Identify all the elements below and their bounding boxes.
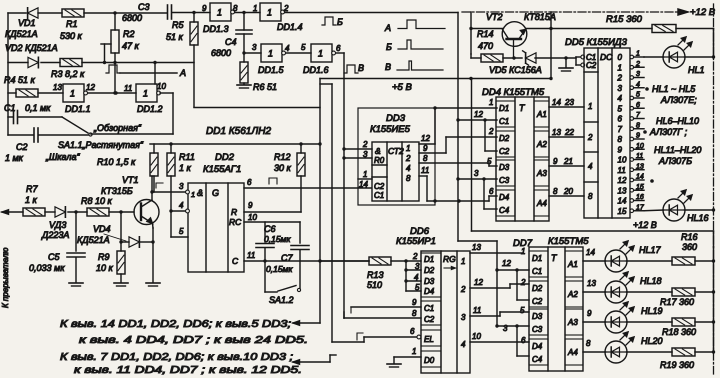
wire DD4 A2 out	[549, 128, 584, 137]
svg-text:13: 13	[472, 243, 481, 252]
svg-text:10: 10	[636, 143, 644, 150]
svg-text:D4: D4	[499, 193, 510, 202]
capacitor C6	[256, 222, 291, 292]
svg-text:T: T	[551, 253, 558, 263]
svg-text:DD1 К561ЛН2: DD1 К561ЛН2	[206, 126, 271, 137]
svg-text:DD1.4: DD1.4	[277, 22, 303, 32]
label DD1 type	[206, 126, 271, 137]
wire DD1.1 out to DD1.2 in	[88, 91, 136, 94]
svg-text:VД3: VД3	[49, 220, 66, 230]
svg-text:К выв. 14 DD1, DD2, DD6; к в: К выв. 14 DD1, DD2, DD6; к выв.5 DD3;	[60, 319, 291, 330]
wire DD5 strobe stubs	[576, 55, 585, 67]
svg-text:D0: D0	[424, 356, 435, 365]
svg-text:DD1.3: DD1.3	[203, 24, 229, 34]
svg-text:R: R	[231, 207, 237, 217]
led HL20	[605, 332, 672, 363]
svg-text:14: 14	[586, 248, 595, 257]
inverter DD1.3	[203, 3, 238, 34]
svg-text:1: 1	[521, 247, 525, 256]
svg-text:Д223А: Д223А	[41, 230, 69, 240]
svg-text:C1: C1	[4, 103, 16, 113]
transistor VT1	[101, 175, 159, 225]
wire VD2/R3 line	[8, 53, 194, 95]
resistor R10	[97, 144, 158, 192]
wire VD3 to R8	[68, 210, 87, 213]
svg-text:8: 8	[406, 174, 411, 183]
wire gnd pin feed arrow	[293, 355, 336, 364]
svg-text:11: 11	[421, 166, 429, 175]
resistor R12	[274, 144, 305, 212]
svg-text:6: 6	[336, 44, 341, 53]
svg-text:SA1.1„Растянутая“: SA1.1„Растянутая“	[58, 140, 144, 150]
svg-text:4: 4	[588, 162, 593, 171]
label DD6 type	[396, 226, 436, 247]
svg-text:1: 1	[489, 98, 493, 107]
svg-text:Б: Б	[386, 42, 392, 52]
svg-text:К155ТМ5: К155ТМ5	[548, 236, 589, 247]
svg-text:A2: A2	[567, 290, 578, 299]
svg-text:C: C	[232, 256, 239, 266]
wire R7 to VD3	[45, 211, 55, 213]
diode VD3	[41, 207, 69, 240]
svg-text:C1: C1	[374, 191, 384, 200]
waveform A	[384, 20, 445, 33]
svg-text:1: 1	[363, 170, 367, 179]
waveform V	[385, 61, 443, 72]
svg-text:2: 2	[520, 278, 526, 287]
svg-text:3: 3	[618, 84, 623, 93]
label K preryvatelyu	[1, 248, 10, 308]
inverter DD1.1	[53, 83, 95, 114]
svg-text:2: 2	[617, 74, 623, 83]
svg-text:+12 В: +12 В	[690, 7, 716, 18]
svg-text:11: 11	[473, 306, 481, 315]
svg-text:1: 1	[217, 8, 222, 18]
svg-text:5: 5	[415, 283, 420, 292]
svg-text:12: 12	[502, 259, 511, 268]
svg-text:3: 3	[252, 43, 257, 52]
svg-text:C4: C4	[225, 37, 237, 47]
ic DD5	[584, 48, 630, 218]
resistor R17	[660, 288, 715, 307]
svg-text:13: 13	[618, 186, 627, 195]
wire DD6 out2	[470, 278, 529, 288]
svg-text:R10 1,5 к: R10 1,5 к	[97, 157, 136, 167]
wire +5 distribution left	[194, 79, 320, 324]
svg-text:C1: C1	[424, 304, 434, 313]
svg-text:R16: R16	[681, 232, 698, 242]
svg-text:А: А	[384, 23, 391, 33]
wire right border rail (dash-dot)	[713, 4, 715, 374]
svg-text:15: 15	[636, 184, 644, 191]
capacitor C1	[4, 103, 62, 124]
svg-text:КД521А: КД521А	[5, 29, 38, 39]
svg-text:R12: R12	[274, 152, 291, 162]
svg-text:1: 1	[618, 63, 622, 72]
svg-text:1: 1	[268, 49, 273, 59]
svg-text:D2: D2	[424, 266, 435, 275]
ic DD2	[188, 183, 244, 272]
svg-text:3: 3	[363, 150, 368, 159]
wire R8 to base	[109, 210, 134, 213]
svg-text:4: 4	[618, 94, 623, 103]
ic DD6	[421, 251, 470, 373]
svg-text:C2: C2	[16, 142, 28, 152]
svg-text:C4: C4	[499, 206, 510, 215]
svg-text:1 к: 1 к	[179, 163, 192, 173]
svg-text:1: 1	[253, 4, 257, 13]
svg-text:R4 51 к: R4 51 к	[4, 75, 36, 85]
svg-text:HL11–HL20: HL11–HL20	[654, 145, 701, 155]
wire +5 to D inputs	[472, 79, 714, 248]
svg-text:R13: R13	[367, 270, 384, 280]
resistor R19	[660, 348, 715, 370]
svg-text:R17 360: R17 360	[660, 297, 694, 307]
wire R4 line	[8, 92, 63, 94]
label power note line4	[74, 365, 302, 376]
wire DD7 A2 out	[583, 279, 606, 292]
svg-text:D3: D3	[424, 277, 435, 286]
svg-text:А: А	[179, 68, 186, 78]
svg-text:Б: Б	[337, 17, 343, 27]
svg-text:R18 360: R18 360	[662, 327, 696, 337]
svg-text:6: 6	[521, 336, 526, 345]
svg-text:23: 23	[564, 98, 574, 107]
wire DD6 out3	[470, 306, 529, 316]
resistor R3	[51, 59, 85, 80]
wire R2 side stub	[101, 44, 111, 64]
wire V signal	[336, 53, 344, 318]
svg-text:0,15мк: 0,15мк	[264, 234, 291, 244]
wire R rail (DD2 pullups)	[150, 142, 322, 145]
svg-text:6: 6	[618, 115, 623, 124]
svg-text:D1: D1	[499, 104, 509, 113]
wire DD7 A4 out	[583, 339, 606, 352]
svg-text:510: 510	[367, 280, 382, 290]
wire VT1 emitter	[146, 224, 160, 287]
svg-text:К прерывателю: К прерывателю	[1, 248, 10, 308]
svg-text:9: 9	[618, 145, 623, 154]
svg-text:VT1: VT1	[122, 175, 139, 185]
svg-text:VD1: VD1	[18, 18, 36, 28]
svg-text:„Обзорная“: „Обзорная“	[93, 123, 142, 133]
svg-text:D2: D2	[532, 284, 543, 293]
svg-text:2: 2	[283, 4, 289, 13]
svg-text:HL1 ~ HL5: HL1 ~ HL5	[652, 84, 696, 94]
node V pulse marker	[344, 63, 364, 73]
inverter DD1.5	[258, 44, 290, 75]
svg-text:2: 2	[362, 140, 368, 149]
svg-text:1: 1	[318, 49, 323, 59]
svg-text:C4: C4	[532, 355, 543, 364]
resistor R2	[111, 13, 140, 53]
svg-text:10: 10	[472, 332, 481, 341]
wire DD2 pin11 C	[244, 251, 369, 263]
svg-text:EL: EL	[424, 335, 434, 344]
wire R5 node to DD1.3	[194, 4, 210, 13]
resistor R9	[96, 242, 128, 286]
svg-text:RG: RG	[443, 254, 456, 264]
svg-text:8: 8	[233, 4, 238, 13]
wire DD6 C1	[351, 298, 421, 313]
svg-text:КД521А: КД521А	[77, 235, 110, 245]
svg-text:C2: C2	[424, 315, 435, 324]
svg-text:A3: A3	[567, 318, 578, 327]
ic DD3	[372, 142, 419, 201]
svg-text:D3: D3	[499, 163, 510, 172]
resistor R1	[60, 9, 84, 41]
wire DD3 out8	[419, 154, 497, 166]
svg-text:0,1 мк: 0,1 мк	[25, 103, 51, 113]
svg-text:VD2 КД521А: VD2 КД521А	[5, 43, 58, 53]
svg-text:R6 51: R6 51	[253, 82, 277, 92]
svg-text:К выв. 7 DD1, DD2, DD6; к: К выв. 7 DD1, DD2, DD6; к выв.10 DD3 ;	[60, 352, 293, 363]
svg-text:D3: D3	[532, 312, 543, 321]
svg-text:2: 2	[405, 154, 411, 163]
wire DD6 EL	[320, 84, 421, 342]
led HL18	[605, 272, 672, 303]
label DD4 type	[482, 87, 545, 98]
svg-text:&: &	[197, 188, 203, 198]
svg-text:9: 9	[248, 201, 253, 210]
label power note line1	[60, 319, 291, 330]
diode VD2	[5, 43, 58, 68]
svg-text:10 к: 10 к	[96, 263, 114, 273]
svg-text:9: 9	[553, 157, 558, 166]
inverter DD1.6	[303, 44, 341, 75]
capacitor C7	[266, 222, 309, 290]
svg-text:D1: D1	[532, 254, 542, 263]
resistor R15	[551, 14, 714, 57]
wire VT2 emitter line	[527, 28, 552, 30]
svg-text:4: 4	[406, 164, 411, 173]
svg-text:A1: A1	[536, 110, 547, 119]
svg-text:к выв. 11 DD4, DD7 ; к вы: к выв. 11 DD4, DD7 ; к выв. 12 DD5.	[74, 365, 302, 376]
wire DD7 C3C4 tie	[497, 324, 529, 356]
svg-text:9: 9	[636, 133, 640, 140]
diode VD1	[5, 8, 38, 39]
svg-text:C2: C2	[586, 61, 597, 70]
led HL17	[605, 241, 672, 272]
wire C4 to DD1.5	[244, 43, 261, 53]
svg-text:DD1.6: DD1.6	[303, 65, 329, 75]
svg-text:+5 В: +5 В	[392, 82, 412, 93]
wire DD3 out12	[419, 108, 497, 144]
svg-text:HL1: HL1	[688, 65, 705, 75]
svg-text:С3: С3	[138, 2, 150, 12]
capacitor C4	[211, 13, 252, 59]
svg-text:АЛ307Б: АЛ307Б	[658, 156, 692, 166]
svg-text:20: 20	[563, 187, 573, 196]
svg-text:13: 13	[552, 128, 561, 137]
svg-text:DC: DC	[600, 52, 613, 62]
svg-text:2: 2	[460, 285, 466, 294]
wire VD5 line	[503, 56, 576, 59]
wire DD3 pin1	[358, 170, 372, 179]
svg-text:14: 14	[552, 98, 561, 107]
svg-text:4: 4	[636, 81, 640, 88]
led HL1	[644, 37, 715, 75]
svg-text:C3: C3	[532, 325, 543, 334]
svg-text:10: 10	[157, 82, 166, 91]
svg-text:D4: D4	[424, 287, 435, 296]
svg-text:A1: A1	[567, 260, 578, 269]
wire left rail	[7, 13, 9, 135]
svg-text:R9: R9	[98, 252, 110, 262]
svg-text:0,15мк: 0,15мк	[266, 264, 293, 274]
svg-text:16: 16	[636, 194, 644, 201]
resistor R11	[167, 144, 195, 211]
capacitor C5	[29, 212, 85, 286]
svg-text:2: 2	[587, 133, 593, 142]
svg-text:АЛ307Е;: АЛ307Е;	[660, 95, 697, 105]
wire VT1 collector	[151, 176, 153, 200]
svg-text:D1: D1	[424, 255, 434, 264]
svg-text:8: 8	[586, 339, 591, 348]
wire DD6 out1	[470, 243, 522, 253]
svg-text:530 к: 530 к	[60, 31, 83, 41]
wire DD7 A3 out	[583, 309, 606, 322]
svg-text:C2: C2	[532, 297, 543, 306]
svg-text:R1: R1	[66, 19, 78, 29]
svg-text:5: 5	[301, 43, 306, 52]
svg-text:1: 1	[406, 144, 410, 153]
svg-text:8: 8	[636, 122, 640, 129]
svg-text:R15 360: R15 360	[606, 14, 643, 25]
svg-text:1: 1	[412, 347, 416, 356]
wire DD2 pin10 RC	[244, 213, 300, 222]
svg-text:47 к: 47 к	[122, 41, 140, 51]
zener VD5	[489, 51, 542, 75]
svg-text:8: 8	[423, 154, 428, 163]
svg-text:1: 1	[588, 102, 592, 111]
wire DD4 A4 out	[549, 187, 584, 196]
svg-text:HL17: HL17	[639, 245, 662, 255]
svg-text:11: 11	[636, 153, 643, 160]
svg-text:4: 4	[179, 201, 184, 210]
svg-text:R14: R14	[477, 29, 494, 39]
svg-text:4: 4	[285, 44, 290, 53]
label DD5 type	[565, 37, 628, 48]
label +12V mid	[633, 220, 657, 230]
diode VD4	[77, 212, 153, 247]
wire DD2 pin3 pulse	[156, 183, 163, 188]
svg-text:+12 В: +12 В	[633, 220, 657, 230]
svg-text:СТ2: СТ2	[388, 146, 404, 156]
svg-text:R11: R11	[179, 152, 195, 162]
svg-text:В: В	[358, 63, 364, 73]
svg-text:14: 14	[636, 174, 644, 181]
svg-text:HL18: HL18	[640, 276, 662, 286]
wire DD1.2 out route	[91, 93, 173, 134]
svg-text:4: 4	[414, 273, 419, 282]
svg-text:К155АГ1: К155АГ1	[203, 164, 241, 175]
svg-text:АЛ307Г ;: АЛ307Г ;	[649, 127, 688, 137]
wire DD6 out4	[470, 332, 529, 342]
resistor R7	[23, 184, 45, 216]
wire DD6 D0	[387, 347, 421, 367]
svg-text:HL19: HL19	[641, 306, 663, 316]
ic DD7	[529, 247, 583, 371]
svg-text:13: 13	[636, 163, 644, 170]
wire B signal top	[285, 12, 458, 14]
wire +12V top rail (dash-dot)	[462, 7, 716, 18]
resistor R16	[672, 232, 715, 265]
svg-text:DD3: DD3	[386, 113, 406, 124]
led HL19	[605, 302, 672, 333]
svg-text:D2: D2	[499, 134, 510, 143]
svg-text:1: 1	[143, 89, 148, 99]
svg-text:3: 3	[461, 313, 466, 322]
svg-text:14: 14	[618, 197, 627, 206]
switch SA1.1	[45, 117, 144, 162]
svg-text:9: 9	[587, 309, 592, 318]
svg-text:10: 10	[618, 156, 627, 165]
wire DD7 A1 out	[583, 248, 606, 261]
svg-text:8: 8	[618, 135, 623, 144]
svg-text:5: 5	[636, 92, 640, 99]
svg-text:2: 2	[412, 252, 418, 261]
svg-text:30 к: 30 к	[274, 163, 292, 173]
svg-text:1 к: 1 к	[25, 195, 38, 205]
resistor R8	[81, 196, 113, 216]
svg-text:C5: C5	[48, 252, 60, 262]
svg-text:DD1.2: DD1.2	[137, 104, 163, 114]
svg-text:3: 3	[503, 324, 508, 333]
wire input arrow	[2, 210, 23, 214]
wire DD6 D inputs tie	[404, 252, 421, 292]
svg-text:R3 8,2 к: R3 8,2 к	[51, 69, 85, 79]
svg-text:6: 6	[247, 178, 252, 187]
svg-text:5: 5	[618, 104, 623, 113]
svg-text:6: 6	[410, 327, 415, 336]
resistor R6	[237, 53, 277, 92]
ic DD4	[496, 97, 549, 221]
label power note line3	[60, 352, 293, 363]
svg-text:A2: A2	[536, 140, 547, 149]
svg-text:КТ315Б: КТ315Б	[101, 186, 133, 196]
node A pulse marker	[106, 65, 186, 78]
svg-text:R2: R2	[123, 29, 135, 39]
wire B clock vertical	[456, 13, 459, 242]
svg-text:12: 12	[474, 110, 483, 119]
svg-text:0: 0	[618, 53, 623, 62]
wire +12 tap	[549, 12, 552, 79]
svg-text:C2: C2	[374, 182, 385, 191]
wire +12 bottom rail	[713, 247, 715, 352]
inverter DD1.4	[260, 3, 303, 32]
svg-text:VD4: VD4	[93, 224, 111, 234]
wire DD2 pin6 out	[244, 178, 371, 188]
svg-text:6: 6	[636, 102, 640, 109]
svg-text:К155ИР1: К155ИР1	[396, 236, 436, 247]
ground VD5	[559, 58, 573, 71]
svg-text:DD1.1: DD1.1	[65, 104, 91, 114]
svg-text:12: 12	[421, 134, 430, 143]
svg-text:D4: D4	[532, 342, 543, 351]
svg-text:VD5 КС156А: VD5 КС156А	[489, 65, 542, 75]
wire B clock to DD7	[458, 241, 499, 328]
svg-text:„Шкала“: „Шкала“	[45, 152, 81, 162]
svg-text:DD2: DD2	[215, 152, 235, 163]
svg-text:R0: R0	[374, 156, 385, 165]
wire +5 pin feed arrow	[293, 321, 320, 325]
waveform B	[386, 40, 443, 52]
wire DD1.5 to DD1.6	[286, 43, 311, 53]
svg-text:5: 5	[487, 157, 492, 166]
wire DD3 feedback box	[358, 106, 437, 205]
svg-text:21: 21	[563, 157, 573, 166]
